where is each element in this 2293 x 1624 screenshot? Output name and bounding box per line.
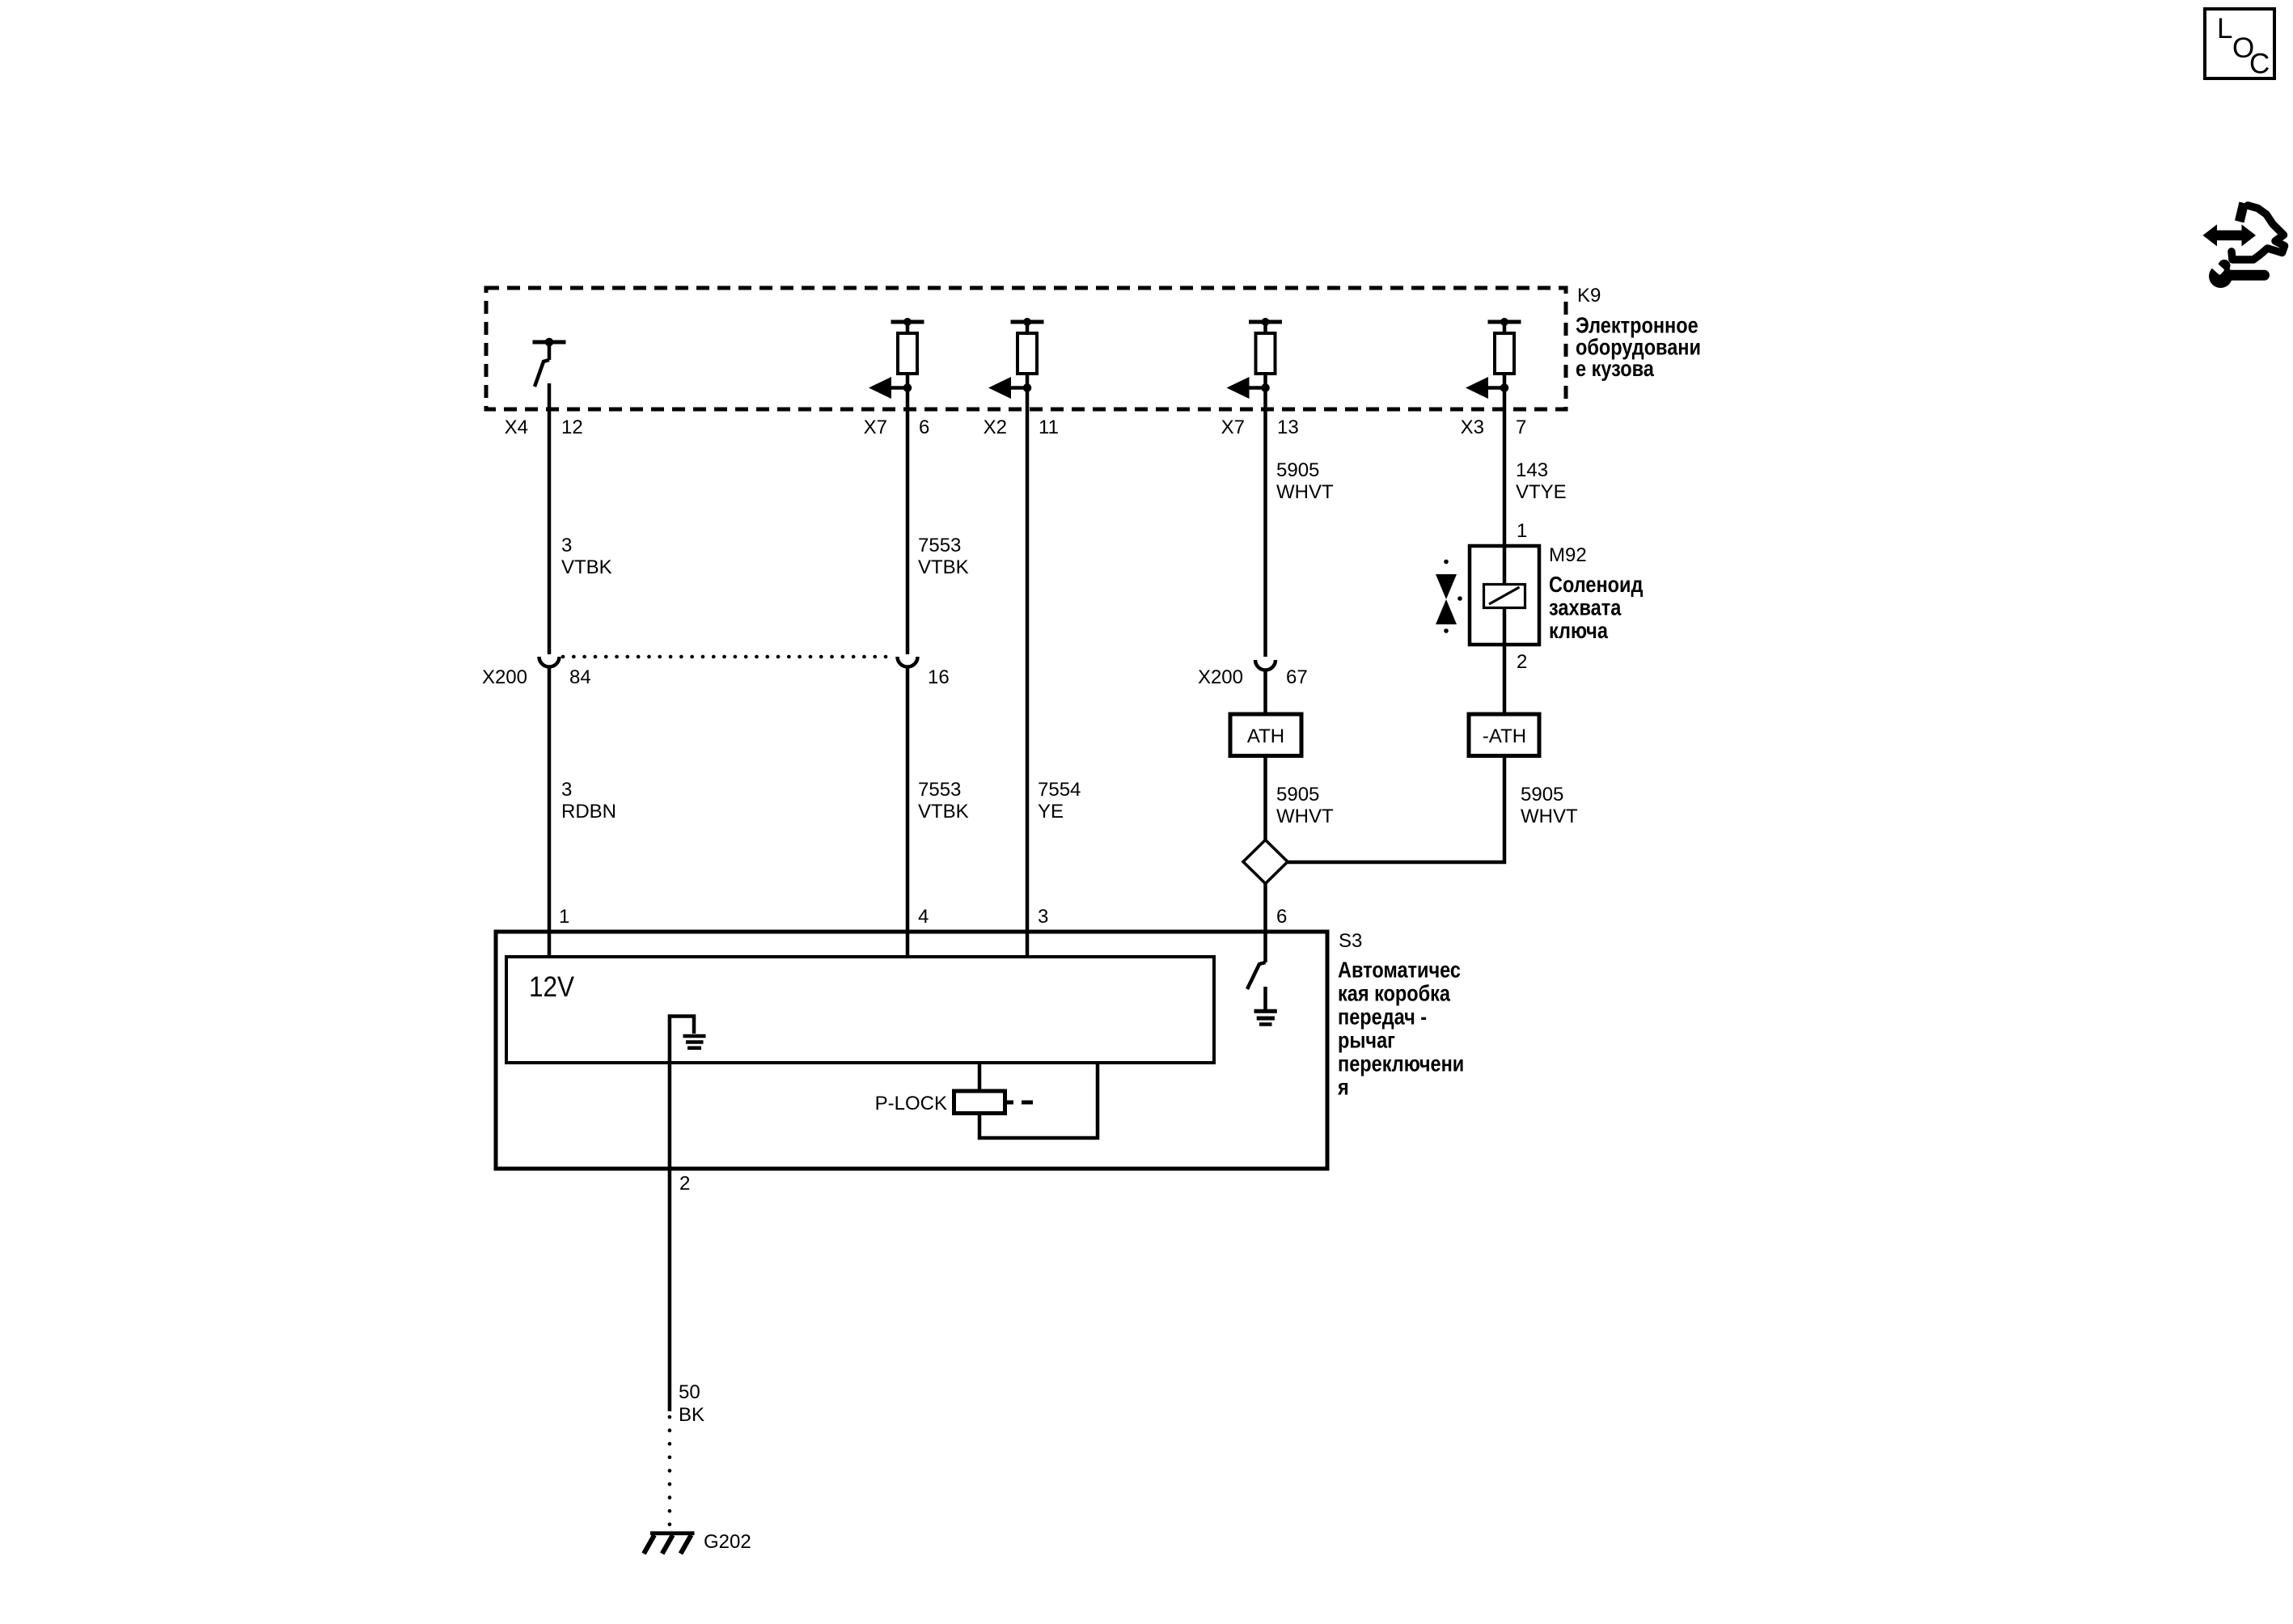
module K9 dashed box xyxy=(486,288,1566,409)
S3 description label xyxy=(1337,958,1464,1100)
resistor load in K9 (X2-11) xyxy=(988,318,1044,399)
S3 internal 12V supply box xyxy=(506,957,1214,1063)
connector X200 pin 84 halfcircle xyxy=(539,657,560,667)
LOC reference box xyxy=(2205,9,2274,80)
svg-text:BK: BK xyxy=(679,1404,704,1426)
resistor load in K9 (X7-13) xyxy=(1227,318,1283,399)
svg-text:-ATH: -ATH xyxy=(1483,725,1526,747)
svg-text:3: 3 xyxy=(561,535,572,556)
svg-text:L: L xyxy=(2217,13,2232,44)
wire -ATH to splice diamond xyxy=(1288,756,1504,863)
svg-text:11: 11 xyxy=(1039,417,1059,438)
resistor load in K9 (X3-7) xyxy=(1466,318,1521,399)
solenoid M92 xyxy=(1470,546,1539,645)
dotted ground wire xyxy=(668,1417,672,1529)
svg-text:X4: X4 xyxy=(505,417,528,438)
splice pack ATH xyxy=(1230,714,1301,756)
wire X2-11 to S3 pin 3 xyxy=(1026,388,1030,958)
svg-text:12V: 12V xyxy=(529,972,575,1004)
splice pack -ATH xyxy=(1469,714,1539,756)
svg-text:X7: X7 xyxy=(864,417,887,438)
svg-text:C: C xyxy=(2249,49,2270,80)
internal ground symbol of 12V box xyxy=(670,1017,706,1063)
svg-text:K9: K9 xyxy=(1577,285,1601,307)
wire X200-67 to splice ATH xyxy=(1263,671,1267,717)
svg-text:VTYE: VTYE xyxy=(1516,481,1567,503)
12V label xyxy=(529,972,575,1004)
svg-text:50: 50 xyxy=(679,1381,700,1403)
svg-text:X3: X3 xyxy=(1461,417,1484,438)
svg-text:WHVT: WHVT xyxy=(1276,481,1334,503)
svg-text:M92: M92 xyxy=(1549,544,1587,566)
svg-text:захвата: захвата xyxy=(1549,596,1622,620)
svg-text:кая коробка: кая коробка xyxy=(1338,982,1451,1006)
svg-text:6: 6 xyxy=(919,417,929,438)
ground G202 xyxy=(644,1533,695,1554)
svg-text:3: 3 xyxy=(561,779,572,801)
connector X200 pin 67 halfcircle xyxy=(1255,660,1276,670)
module S3 box xyxy=(496,932,1327,1169)
svg-text:5905: 5905 xyxy=(1521,784,1563,806)
svg-text:13: 13 xyxy=(1277,417,1299,438)
repair instructions icon xyxy=(2203,202,2285,289)
svg-text:6: 6 xyxy=(1276,906,1287,928)
svg-text:67: 67 xyxy=(1286,666,1308,688)
svg-text:5905: 5905 xyxy=(1276,459,1319,481)
svg-text:X2: X2 xyxy=(984,417,1007,438)
svg-text:VTBK: VTBK xyxy=(561,556,612,578)
svg-text:3: 3 xyxy=(1038,906,1048,928)
svg-text:16: 16 xyxy=(928,666,950,688)
svg-text:е кузова: е кузова xyxy=(1576,357,1654,381)
svg-text:1: 1 xyxy=(559,906,569,928)
wire diamond to S3 pin 6 xyxy=(1263,884,1267,963)
P-LOCK switch assembly xyxy=(954,1063,1098,1138)
svg-text:X200: X200 xyxy=(1198,666,1243,688)
svg-text:ATH: ATH xyxy=(1247,725,1284,747)
X200 dotted harness link xyxy=(563,655,895,659)
svg-text:передач -: передач - xyxy=(1338,1005,1427,1030)
switch contact in K9 (X4-12) xyxy=(533,338,566,387)
mechanical actuator symbol of M92 xyxy=(1436,560,1462,633)
svg-text:Автоматичес: Автоматичес xyxy=(1338,958,1461,983)
svg-text:VTBK: VTBK xyxy=(918,801,969,823)
svg-text:7553: 7553 xyxy=(918,779,961,801)
svg-text:2: 2 xyxy=(1517,651,1527,673)
ground symbol below S3 switch xyxy=(1254,987,1277,1025)
resistor load in K9 (X7-6) xyxy=(869,318,924,399)
wire M92 pin 2 to splice -ATH xyxy=(1503,645,1507,716)
svg-text:2: 2 xyxy=(679,1173,690,1195)
svg-text:X200: X200 xyxy=(482,666,527,688)
M92 description label xyxy=(1549,573,1643,643)
svg-text:X7: X7 xyxy=(1221,417,1245,438)
svg-text:VTBK: VTBK xyxy=(918,556,969,578)
K9 description label xyxy=(1576,314,1701,382)
svg-text:WHVT: WHVT xyxy=(1276,806,1334,827)
svg-text:4: 4 xyxy=(918,906,929,928)
svg-text:переключени: переключени xyxy=(1338,1052,1464,1076)
svg-text:G202: G202 xyxy=(704,1531,751,1553)
svg-text:7554: 7554 xyxy=(1038,779,1081,801)
wire X3-7 to M92 pin 1 xyxy=(1503,388,1507,548)
svg-text:YE: YE xyxy=(1038,801,1064,823)
splice diamond node xyxy=(1243,840,1288,884)
wire X200-16 to S3 pin 4 xyxy=(906,668,910,958)
svg-text:5905: 5905 xyxy=(1276,784,1319,806)
svg-text:я: я xyxy=(1337,1076,1349,1100)
wire X7-13 to X200 xyxy=(1263,388,1267,658)
svg-text:S3: S3 xyxy=(1339,930,1362,952)
svg-text:7553: 7553 xyxy=(918,535,961,556)
svg-text:12: 12 xyxy=(561,417,583,438)
svg-text:ключа: ключа xyxy=(1549,619,1608,643)
svg-text:143: 143 xyxy=(1516,459,1548,481)
svg-text:84: 84 xyxy=(569,666,591,688)
svg-text:P-LOCK: P-LOCK xyxy=(875,1093,947,1114)
svg-text:Соленоид: Соленоид xyxy=(1549,573,1643,597)
svg-text:7: 7 xyxy=(1516,417,1526,438)
wire X200-84 to S3 pin 1 xyxy=(548,668,552,958)
wire ATH to splice diamond xyxy=(1263,756,1267,842)
svg-text:WHVT: WHVT xyxy=(1521,806,1578,827)
wire S3 pin 2 to ground xyxy=(668,1062,672,1411)
connector X200 pin 16 halfcircle xyxy=(898,657,918,667)
svg-text:1: 1 xyxy=(1517,520,1527,542)
wire X4-12 to X200 xyxy=(548,383,552,654)
S3 selector switch on pin 6 xyxy=(1247,962,1266,989)
svg-text:Электронное: Электронное xyxy=(1576,314,1699,338)
svg-text:рычаг: рычаг xyxy=(1338,1029,1395,1053)
svg-text:RDBN: RDBN xyxy=(561,801,616,823)
wire X7-6 to X200 xyxy=(906,388,910,655)
